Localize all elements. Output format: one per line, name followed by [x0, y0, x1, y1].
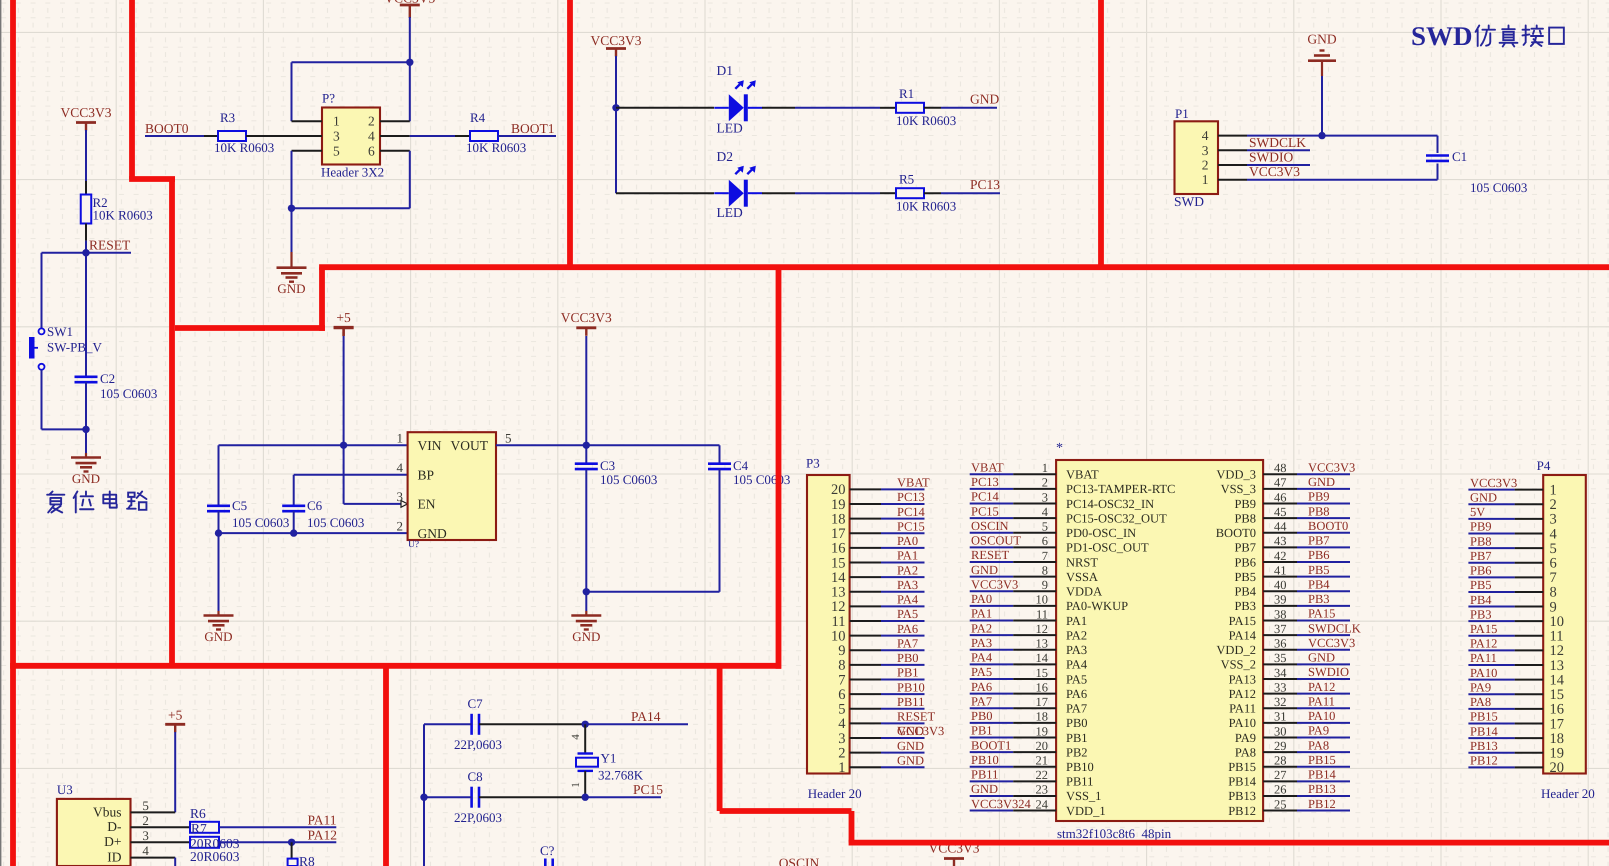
svg-text:GND: GND — [277, 281, 305, 296]
svg-text:2: 2 — [1202, 158, 1209, 173]
wire R1 to GND label — [941, 107, 997, 109]
svg-text:C7: C7 — [468, 696, 484, 711]
svg-text:GND: GND — [204, 629, 232, 644]
svg-text:6: 6 — [368, 143, 375, 158]
svg-text:GND: GND — [897, 724, 924, 738]
svg-text:3: 3 — [1550, 512, 1557, 528]
wire pin6 loop right — [409, 151, 411, 209]
svg-text:PA2: PA2 — [971, 621, 992, 635]
wire P3 pin 20 stub — [850, 488, 881, 490]
svg-text:PB1: PB1 — [971, 724, 993, 738]
wire MCU pin 7 stub — [1013, 561, 1056, 563]
wire VCC3V3 net — [1247, 164, 1310, 166]
wire MCU pin 3 stub — [1013, 503, 1056, 505]
svg-text:PA9: PA9 — [1470, 680, 1491, 694]
wire net P3 pin 13 — [881, 591, 925, 593]
wire P4 pin 3 stub — [1515, 518, 1544, 520]
svg-text:PA2: PA2 — [897, 563, 918, 577]
svg-text:SWD: SWD — [1174, 194, 1204, 209]
red partition vertical x=172 — [169, 179, 175, 666]
svg-text:14: 14 — [831, 570, 846, 586]
wire net PA4 (MCU pin 14) — [970, 663, 1014, 665]
svg-text:PC13-TAMPER-RTC: PC13-TAMPER-RTC — [1066, 482, 1175, 496]
svg-text:PB15: PB15 — [1308, 753, 1336, 767]
red partition horizontal y=811 — [720, 808, 852, 814]
svg-text:2: 2 — [1042, 476, 1048, 490]
svg-text:VSS_1: VSS_1 — [1066, 789, 1101, 803]
power bar — [400, 4, 420, 7]
svg-text:OSCIN: OSCIN — [971, 519, 1009, 533]
svg-text:PA8: PA8 — [1308, 738, 1329, 752]
svg-text:VCC3V3: VCC3V3 — [1470, 476, 1517, 490]
wire P4 pin 9 stub — [1515, 606, 1544, 608]
section title 复位电路 (reset circuit) — [47, 492, 64, 513]
svg-text:PC13: PC13 — [970, 177, 1000, 192]
wire P4 pin 13 stub — [1515, 664, 1544, 666]
svg-text:R1: R1 — [899, 86, 914, 101]
power bar — [165, 723, 185, 726]
wire C3 to GND node — [585, 469, 587, 592]
wire SW1 to bottom node — [41, 370, 43, 430]
wire C4 bottom link — [586, 591, 719, 593]
svg-text:PB7: PB7 — [1470, 549, 1492, 563]
svg-text:VIN: VIN — [418, 438, 442, 453]
svg-text:PB0: PB0 — [1066, 716, 1088, 730]
svg-text:2: 2 — [838, 745, 845, 761]
red partition vertical x=851 — [849, 811, 855, 843]
svg-text:2: 2 — [397, 518, 404, 533]
capacitor C4 — [708, 462, 731, 465]
resistor R3 — [218, 131, 246, 141]
svg-text:47: 47 — [1274, 476, 1287, 490]
wire VOUT to C3 — [585, 445, 587, 463]
wire GND net — [219, 532, 408, 534]
svg-text:BOOT1: BOOT1 — [511, 121, 555, 136]
wire MCU pin 15 stub — [1013, 678, 1056, 680]
wire P4 pin 16 stub — [1515, 708, 1544, 710]
svg-text:VDDA: VDDA — [1066, 585, 1102, 599]
wire to GND — [85, 429, 87, 453]
wire VCC3V3 down to VOUT — [585, 336, 587, 445]
header P4 body — [1543, 475, 1586, 774]
svg-text:PB10: PB10 — [897, 680, 925, 694]
svg-text:PB5: PB5 — [1234, 570, 1256, 584]
wire P4 pin 5 stub — [1515, 547, 1544, 549]
wire R2 bottom pin — [85, 224, 87, 241]
svg-text:33: 33 — [1274, 680, 1287, 694]
wire net P3 pin 6 — [881, 693, 925, 695]
wire R5 left pin — [880, 192, 896, 194]
svg-text:PA8: PA8 — [1235, 745, 1256, 759]
wire D- to R6 — [131, 826, 191, 828]
svg-text:3: 3 — [838, 731, 845, 747]
svg-text:3: 3 — [142, 828, 149, 843]
svg-text:16: 16 — [1550, 702, 1565, 718]
svg-text:23: 23 — [1036, 783, 1049, 797]
wire MCU pin 10 stub — [1013, 605, 1056, 607]
svg-text:RESET: RESET — [897, 710, 936, 724]
wire pin3 stub — [1218, 149, 1247, 151]
resistor R7 — [190, 837, 219, 848]
svg-text:PA5: PA5 — [971, 665, 992, 679]
wire net P4 pin 12 — [1468, 649, 1514, 651]
wire net P4 pin 1 — [1468, 489, 1514, 491]
wire MCU pin 23 stub — [1013, 795, 1056, 797]
svg-text:15: 15 — [831, 555, 846, 571]
svg-text:10K R0603: 10K R0603 — [896, 199, 956, 214]
svg-text:PA7: PA7 — [971, 694, 992, 708]
svg-text:PA9: PA9 — [1235, 731, 1256, 745]
wire net VCC3V3 (MCU pin 48) — [1297, 473, 1350, 475]
red partition vertical x=386 — [383, 663, 389, 866]
junction pin5/pin6/GND — [288, 205, 295, 212]
svg-text:PB10: PB10 — [1066, 760, 1094, 774]
svg-text:14: 14 — [1036, 651, 1049, 665]
wire R2 top pin — [85, 181, 87, 195]
wire to C4 — [719, 445, 721, 463]
red partition jog horizontal — [129, 176, 175, 182]
wire MCU pin 45 stub — [1263, 517, 1297, 519]
wire GND down to SWDCLK net — [1321, 76, 1323, 136]
wire MCU pin 31 stub — [1263, 722, 1297, 724]
svg-text:OSCIN: OSCIN — [779, 856, 820, 866]
svg-text:PA11: PA11 — [1470, 651, 1497, 665]
resistor R6 — [190, 822, 219, 833]
wire P4 pin 15 stub — [1515, 693, 1544, 695]
wire R1 left pin — [880, 107, 896, 109]
wire MCU pin 14 stub — [1013, 663, 1056, 665]
svg-text:PA4: PA4 — [971, 651, 993, 665]
svg-text:PB1: PB1 — [1066, 731, 1088, 745]
wire pin5 down — [291, 151, 293, 209]
svg-text:2: 2 — [142, 813, 149, 828]
svg-text:105 C0603: 105 C0603 — [100, 386, 157, 401]
red partition line top-left vertical — [129, 0, 135, 179]
wire Y1 top pin — [584, 724, 586, 753]
wire net PA9 (MCU pin 30) — [1297, 736, 1350, 738]
svg-text:+5: +5 — [336, 310, 351, 325]
svg-text:PA6: PA6 — [1066, 687, 1087, 701]
wire MCU pin 26 stub — [1263, 795, 1297, 797]
junction R8 branch — [288, 839, 295, 846]
wire BP net — [294, 474, 408, 476]
svg-text:37: 37 — [1274, 622, 1287, 636]
wire net PA7 (MCU pin 17) — [970, 707, 1014, 709]
wire net P3 pin 20 — [881, 488, 925, 490]
svg-text:PB9: PB9 — [1470, 520, 1492, 534]
svg-text:R7: R7 — [191, 821, 207, 836]
svg-text:EN: EN — [418, 497, 436, 512]
wire +5 down to Vbus — [174, 732, 176, 812]
svg-text:GND: GND — [897, 739, 924, 753]
svg-text:LED: LED — [717, 121, 743, 136]
wire MCU pin 20 stub — [1013, 751, 1056, 753]
wire MCU pin 36 stub — [1263, 649, 1297, 651]
wire MCU pin 47 stub — [1263, 488, 1297, 490]
svg-text:PC15-OSC32_OUT: PC15-OSC32_OUT — [1066, 511, 1167, 525]
wire P4 pin 19 stub — [1515, 752, 1544, 754]
wire net P4 pin 11 — [1468, 635, 1514, 637]
wire net P4 pin 7 — [1468, 576, 1514, 578]
wire P3 pin 9 stub — [850, 649, 881, 651]
svg-text:PA7: PA7 — [1066, 702, 1087, 716]
junction C3/C4 gnd — [583, 588, 590, 595]
svg-text:20: 20 — [1036, 739, 1049, 753]
svg-text:PB10: PB10 — [971, 753, 999, 767]
wire P4 pin 10 stub — [1515, 620, 1544, 622]
wire P4 pin 17 stub — [1515, 723, 1544, 725]
wire VCC3V3 down to pin2 — [409, 17, 411, 121]
red partition vertical x=778 — [776, 267, 782, 669]
svg-text:C1: C1 — [1452, 149, 1467, 164]
svg-text:17: 17 — [831, 526, 846, 542]
svg-text:105 C0603: 105 C0603 — [733, 472, 790, 487]
wire C5 to GND net — [218, 511, 220, 533]
wire net PC15 (MCU pin 4) — [970, 517, 1014, 519]
wire net P3 pin 3 — [881, 737, 925, 739]
wire D1 to R1 — [795, 107, 880, 109]
wire net P4 pin 17 — [1468, 723, 1514, 725]
svg-text:PD1-OSC_OUT: PD1-OSC_OUT — [1066, 541, 1149, 555]
svg-text:15: 15 — [1036, 666, 1049, 680]
svg-text:40: 40 — [1274, 578, 1287, 592]
wire Y1 to PC15 — [585, 796, 661, 798]
wire net PA3 (MCU pin 13) — [970, 649, 1014, 651]
wire C4 down — [719, 469, 721, 592]
svg-text:+5: +5 — [168, 708, 183, 723]
svg-text:28: 28 — [1274, 754, 1287, 768]
wire P4 pin 6 stub — [1515, 562, 1544, 564]
wire R4 to BOOT1 — [498, 135, 556, 137]
wire MCU pin 43 stub — [1263, 546, 1297, 548]
wire net P3 pin 15 — [881, 562, 925, 564]
wire MCU pin 39 stub — [1263, 605, 1297, 607]
svg-text:PA3: PA3 — [1066, 643, 1087, 657]
junction GND/SWDCLK wire — [1318, 132, 1325, 139]
LED D1 — [714, 107, 729, 109]
wire net P4 pin 9 — [1468, 606, 1514, 608]
red partition horizontal y=328 — [175, 325, 325, 331]
svg-text:VCC3V3: VCC3V3 — [971, 577, 1018, 591]
svg-text:46: 46 — [1274, 490, 1287, 504]
svg-text:41: 41 — [1274, 563, 1287, 577]
ground — [277, 266, 307, 269]
svg-text:17: 17 — [1550, 716, 1565, 732]
svg-text:PA12: PA12 — [1308, 680, 1335, 694]
svg-text:PA14: PA14 — [1229, 628, 1257, 642]
wire net P3 pin 8 — [881, 664, 925, 666]
red partition vertical x=720 — [717, 663, 723, 811]
wire P3 pin 11 stub — [850, 620, 881, 622]
wire net BOOT1 (MCU pin 20) — [970, 751, 1014, 753]
svg-text:48: 48 — [1274, 461, 1287, 475]
wire net P3 pin 12 — [881, 605, 925, 607]
wire net P4 pin 19 — [1468, 752, 1514, 754]
svg-text:17: 17 — [1036, 695, 1049, 709]
svg-text:16: 16 — [1036, 680, 1049, 694]
power bar — [576, 326, 596, 329]
svg-text:PA7: PA7 — [897, 636, 918, 650]
svg-text:32: 32 — [1274, 695, 1287, 709]
wire P3 pin 6 stub — [850, 693, 881, 695]
wire net PC13 (MCU pin 2) — [970, 488, 1014, 490]
wire MCU pin 24 stub — [1013, 810, 1056, 812]
wire P3 pin 19 stub — [850, 503, 881, 505]
svg-text:22P,0603: 22P,0603 — [454, 810, 502, 825]
svg-text:PB5: PB5 — [1308, 563, 1330, 577]
red partition horizontal y=843 — [849, 840, 1609, 846]
wire ID — [131, 857, 176, 859]
svg-text:4: 4 — [142, 843, 149, 858]
wire MCU pin 19 stub — [1013, 736, 1056, 738]
wire MCU pin 27 stub — [1263, 780, 1297, 782]
svg-text:105 C0603: 105 C0603 — [600, 472, 657, 487]
svg-text:D2: D2 — [717, 149, 734, 164]
wire net P3 pin 9 — [881, 649, 925, 651]
svg-text:PA1: PA1 — [897, 549, 918, 563]
svg-text:PB0: PB0 — [971, 709, 993, 723]
wire pin2 stub — [380, 120, 410, 122]
wire P3 pin 10 stub — [850, 635, 881, 637]
wire net P3 pin 5 — [881, 708, 925, 710]
wire MCU pin 44 stub — [1263, 532, 1297, 534]
svg-text:PB1: PB1 — [897, 666, 919, 680]
wire R7 to PA12 — [219, 841, 336, 843]
wire down to R8 — [291, 842, 293, 858]
svg-text:31: 31 — [1274, 710, 1287, 724]
wire R2 to RESET node — [85, 241, 87, 253]
svg-text:PA11: PA11 — [1229, 702, 1256, 716]
wire pin1 to C1 — [1247, 179, 1438, 181]
svg-text:PB4: PB4 — [1234, 585, 1256, 599]
wire net OSCIN (MCU pin 5) — [970, 532, 1014, 534]
svg-text:GND: GND — [72, 471, 100, 486]
red partition horizontal y=666 — [10, 663, 781, 669]
svg-text:PC15: PC15 — [971, 504, 999, 518]
svg-text:10K R0603: 10K R0603 — [466, 140, 526, 155]
ground — [571, 614, 601, 617]
svg-text:PA6: PA6 — [897, 622, 918, 636]
wire MCU pin 34 stub — [1263, 678, 1297, 680]
wire D1 pin tail — [762, 107, 795, 109]
wire pin4 stub — [1218, 135, 1247, 137]
wire P3 pin 12 stub — [850, 605, 881, 607]
wire net P3 pin 7 — [881, 678, 925, 680]
wire P4 pin 11 stub — [1515, 635, 1544, 637]
wire net PA2 (MCU pin 12) — [970, 634, 1014, 636]
wire P3 pin 2 stub — [850, 752, 881, 754]
svg-text:PA12: PA12 — [308, 828, 338, 843]
svg-text:GND: GND — [1308, 475, 1335, 489]
svg-text:PB12: PB12 — [1470, 754, 1498, 768]
svg-text:Header 20: Header 20 — [808, 786, 862, 801]
svg-text:12: 12 — [831, 599, 846, 615]
svg-text:VCC3V3: VCC3V3 — [60, 105, 111, 120]
wire +5 down — [343, 336, 345, 504]
wire MCU pin 1 stub — [1013, 473, 1056, 475]
wire MCU pin 18 stub — [1013, 722, 1056, 724]
svg-text:VOUT: VOUT — [451, 438, 489, 453]
svg-text:GND: GND — [971, 563, 998, 577]
wire R1 right pin — [924, 107, 941, 109]
svg-text:PB6: PB6 — [1308, 548, 1330, 562]
svg-text:GND: GND — [971, 782, 998, 796]
wire VCC to D2 — [616, 192, 714, 194]
wire net PA12 (MCU pin 33) — [1297, 693, 1350, 695]
wire MCU pin 16 stub — [1013, 693, 1056, 695]
svg-text:10: 10 — [831, 628, 846, 644]
svg-text:3: 3 — [1042, 490, 1048, 504]
svg-text:10: 10 — [1036, 593, 1049, 607]
svg-text:D-: D- — [107, 819, 122, 834]
svg-text:PB11: PB11 — [1066, 775, 1093, 789]
svg-text:R8: R8 — [299, 854, 315, 866]
svg-text:Header 20: Header 20 — [1541, 786, 1595, 801]
svg-text:32.768K: 32.768K — [598, 768, 644, 783]
capacitor C7 — [470, 714, 473, 735]
wire net P3 pin 4 — [881, 722, 925, 724]
wire MCU pin 42 stub — [1263, 561, 1297, 563]
svg-text:11: 11 — [1036, 607, 1048, 621]
svg-text:D+: D+ — [104, 834, 121, 849]
red partition vertical x=570 — [567, 0, 573, 267]
resistor R1 — [896, 103, 924, 113]
svg-text:VCC3V3: VCC3V3 — [1308, 461, 1355, 475]
svg-text:7: 7 — [1550, 570, 1557, 586]
wire MCU pin 29 stub — [1263, 751, 1297, 753]
svg-text:RESET: RESET — [89, 238, 131, 253]
wire net P4 pin 3 — [1468, 518, 1514, 520]
svg-text:PC15: PC15 — [897, 519, 925, 533]
svg-text:35: 35 — [1274, 651, 1287, 665]
wire pin6 stub — [380, 150, 410, 152]
svg-text:105 C0603: 105 C0603 — [307, 515, 364, 530]
wire MCU pin 25 stub — [1263, 810, 1297, 812]
svg-text:22P,0603: 22P,0603 — [454, 737, 502, 752]
junction VOUT/C3 — [583, 442, 590, 449]
wire net P3 pin 17 — [881, 532, 925, 534]
wire VCC3V3 down to D2 row — [615, 56, 617, 193]
svg-text:BOOT0: BOOT0 — [1308, 519, 1348, 533]
junction C6/GND — [290, 529, 297, 536]
svg-text:PB13: PB13 — [1228, 789, 1256, 803]
svg-text:5: 5 — [1042, 520, 1048, 534]
svg-text:22: 22 — [1036, 768, 1049, 782]
svg-text:3: 3 — [333, 129, 340, 144]
svg-text:SW-PB_V: SW-PB_V — [47, 340, 103, 355]
svg-text:105 C0603: 105 C0603 — [1470, 180, 1527, 195]
svg-text:25: 25 — [1274, 797, 1287, 811]
wire net P4 pin 8 — [1468, 591, 1514, 593]
wire P3 pin 14 stub — [850, 576, 881, 578]
svg-text:C6: C6 — [307, 498, 323, 513]
svg-text:105 C0603: 105 C0603 — [232, 515, 289, 530]
svg-text:11: 11 — [1550, 629, 1564, 645]
svg-text:13: 13 — [1036, 637, 1049, 651]
svg-text:PA15: PA15 — [1470, 622, 1497, 636]
wire R3 left pin — [204, 135, 218, 137]
svg-text:PA13: PA13 — [1229, 672, 1256, 686]
svg-text:PA2: PA2 — [1066, 628, 1087, 642]
wire net P3 pin 14 — [881, 576, 925, 578]
svg-text:7: 7 — [1042, 549, 1048, 563]
svg-text:GND: GND — [1308, 651, 1335, 665]
svg-text:12: 12 — [1036, 622, 1049, 636]
svg-text:PA5: PA5 — [1066, 672, 1087, 686]
wire VOUT net — [496, 444, 720, 446]
wire MCU pin 41 stub — [1263, 576, 1297, 578]
svg-text:R3: R3 — [220, 110, 235, 125]
